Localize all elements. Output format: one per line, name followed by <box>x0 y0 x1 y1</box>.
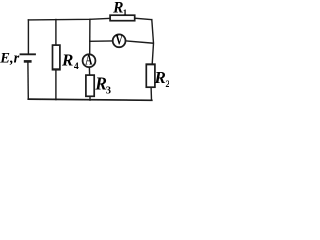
ammeter A circle <box>83 54 96 67</box>
wire voltmeter branch left <box>90 40 112 42</box>
wire node A vertical <box>89 19 91 54</box>
svg-text:R: R <box>154 68 166 87</box>
svg-text:R: R <box>112 0 123 17</box>
wire top left segment <box>28 18 110 20</box>
resistor R3 <box>86 75 94 96</box>
resistor R1 <box>110 15 135 21</box>
battery E,r short plate <box>24 60 32 63</box>
wire R4 top stub <box>55 20 57 46</box>
wire left rail lower <box>27 63 29 100</box>
resistor R2 <box>146 64 155 87</box>
wire top right segment <box>135 18 152 19</box>
voltmeter V circle <box>113 34 126 47</box>
wire left rail upper <box>27 20 29 54</box>
resistor R4 bottom cap <box>53 68 60 70</box>
svg-text:A: A <box>85 52 93 69</box>
wire R3 bottom stub <box>89 96 91 100</box>
svg-text:1: 1 <box>123 7 127 17</box>
svg-text:2: 2 <box>165 79 169 90</box>
svg-text:4: 4 <box>74 61 79 72</box>
wire voltmeter branch right <box>126 41 153 43</box>
wire R4 bottom stub <box>55 70 57 100</box>
battery E,r long plate <box>20 53 36 55</box>
svg-text:R: R <box>61 50 73 69</box>
svg-text:V: V <box>116 32 124 48</box>
wire right rail <box>152 20 154 65</box>
resistor R4 <box>53 45 60 70</box>
wire bottom <box>28 99 152 100</box>
resistor R2 top cap <box>146 63 154 65</box>
svg-text:3: 3 <box>106 85 111 96</box>
svg-text:E,r: E,r <box>0 51 20 67</box>
wire ammeter to R3 <box>88 68 90 76</box>
wire R2 bottom stub <box>150 87 152 100</box>
